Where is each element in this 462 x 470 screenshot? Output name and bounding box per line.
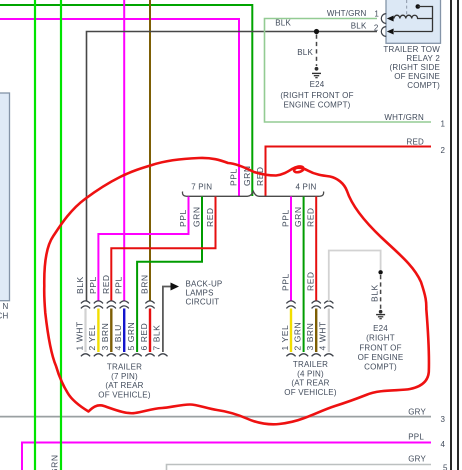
arrow back-up lamps [171,283,180,291]
svg-text:E24: E24 [310,80,325,89]
svg-text:CIRCUIT: CIRCUIT [186,298,220,307]
svg-text:(RIGHT: (RIGHT [366,334,395,343]
svg-text:7 PIN: 7 PIN [191,183,212,192]
svg-text:1: 1 [374,10,379,19]
svg-text:BRN: BRN [140,274,150,294]
wire GRN 7-pin branch from brace to pin5 column (continuous) [137,197,202,353]
wire BRN vertical from top to 7-pin pin6 [149,0,151,301]
svg-text:GRY: GRY [408,408,426,417]
wire GRN vertical pass-through left 2 [60,0,62,470]
svg-text:COMPT): COMPT) [407,81,440,90]
brace splitting feeds to 7-pin and 4-pin [182,191,323,196]
wire BLK stub pin7 to back-up lamps arrow [163,287,171,353]
svg-text:BACK-UP: BACK-UP [186,280,223,289]
svg-text:1 WHT: 1 WHT [74,321,84,350]
7-pin pin wires [84,309,86,353]
svg-text:COMPT): COMPT) [364,363,397,372]
wire BLK dashed drop to ground E24 right [380,275,382,309]
7-pin bottom terminal arcs [81,354,168,357]
relay internal top node dot and link [416,4,421,9]
svg-text:5 GRN: 5 GRN [126,322,136,351]
svg-text:6 RED: 6 RED [139,323,149,351]
wire GRN 4-pin branch from brace (continuous) [303,197,305,353]
wire GRY pin 3 horizontal [0,416,431,418]
4-pin pin wires [290,309,292,353]
svg-text:3 BRN: 3 BRN [100,323,110,351]
svg-text:3: 3 [441,415,446,424]
wire RED 4-pin branch from brace [315,197,317,302]
svg-text:BLK: BLK [275,19,291,28]
connector double vertical lines right edge [450,0,452,470]
wire BLK dashed drop to ground E24 left [316,35,318,67]
svg-text:RED: RED [255,166,265,186]
svg-text:(RIGHT FRONT OF: (RIGHT FRONT OF [280,91,353,100]
wire PPL 4-pin branch from brace [290,197,292,302]
wire GRY pin 5 with corner down at x=166 [167,465,432,470]
svg-text:GRN: GRN [192,206,202,227]
svg-text:2: 2 [374,23,379,32]
svg-text:OF ENGINE: OF ENGINE [394,72,440,81]
wire GRN vertical pass-through left 1 [34,0,36,470]
svg-text:PPL: PPL [88,276,98,294]
svg-text:2 GRN: 2 GRN [292,322,302,351]
wire PPL vertical from top to 7-pin pin4 [123,0,125,301]
wire WHT from 4-pin pin4 up and over to E24 right [329,251,381,302]
svg-text:FRONT OF: FRONT OF [359,343,401,352]
wire BLK from relay pin2 left then down to 7-pin pin1 [87,32,378,302]
wire WHT/GRN from relay pin1 around to right connector pin 1 [265,19,432,123]
svg-text:BLK: BLK [297,48,313,57]
svg-text:WHT/GRN: WHT/GRN [384,113,424,122]
relay pin2 row with left arrow [394,31,433,33]
svg-text:N: N [3,302,9,311]
svg-text:TRAILER: TRAILER [293,360,328,369]
component box (left edge, partially off-screen) [0,93,10,301]
svg-text:(AT REAR: (AT REAR [291,379,329,388]
svg-text:ENGINE COMPT): ENGINE COMPT) [283,101,350,110]
svg-text:RED: RED [407,138,425,147]
svg-text:3 BRN: 3 BRN [305,323,315,351]
svg-text:4 PIN: 4 PIN [295,183,316,192]
svg-text:7 BLK: 7 BLK [152,325,162,351]
svg-text:OF VEHICLE): OF VEHICLE) [98,391,151,400]
svg-text:TRAILER TOW: TRAILER TOW [383,45,440,54]
svg-text:PPL: PPL [408,433,424,442]
svg-text:GRN: GRN [293,206,303,227]
svg-text:2 YEL: 2 YEL [87,325,97,351]
svg-text:TRAILER: TRAILER [107,363,142,372]
svg-text:BLK: BLK [75,276,85,294]
wire PPL feed: horizontal y=19 then down at x=239 to brace [0,19,239,196]
hand-drawn red loop [44,158,429,424]
svg-text:1: 1 [441,120,446,129]
svg-text:PPL: PPL [114,276,124,294]
svg-text:PPL: PPL [281,209,291,227]
ground E24 right symbol [376,310,385,319]
svg-text:(4 PIN): (4 PIN) [297,369,324,378]
4-pin bottom terminal arcs [286,354,333,357]
relay pin 2 connector arc [381,27,386,37]
wire PPL 7-pin branch from brace to pin2 column [98,197,188,302]
svg-text:RED: RED [205,207,215,227]
svg-text:2: 2 [441,146,446,155]
svg-text:BLK: BLK [351,22,367,31]
svg-text:PPL: PPL [281,273,291,291]
relay pin 1 connector arc [381,14,386,24]
wire RED 7-pin branch from brace to pin3 column [111,197,215,302]
svg-text:WHT/GRN: WHT/GRN [327,9,367,18]
svg-text:RED: RED [306,207,316,227]
wire GRN feed: horizontal y=5 then down at x=252.3 to brace [0,5,252,196]
7-pin connector inline arcs [81,301,155,309]
svg-text:(AT REAR: (AT REAR [105,381,143,390]
svg-text:4 WHT: 4 WHT [318,321,328,350]
svg-text:E24: E24 [373,324,388,333]
svg-text:RED: RED [101,274,111,294]
svg-text:PPL: PPL [229,168,239,186]
ground E24 left symbol [312,67,321,78]
relay U trailer tow relay 2 box [386,0,441,43]
relay internal dashed actuator line [406,0,408,17]
node dot top of E24 right dashed drop [378,270,382,274]
svg-text:LAMPS: LAMPS [186,289,214,298]
wire RED from right connector pin 2 left then down to brace [266,147,432,197]
svg-text:RED: RED [306,271,316,291]
svg-text:4 BLU: 4 BLU [113,324,123,350]
wire PPL pin 4 with corner down at left [22,443,431,470]
svg-text:GRY: GRY [408,455,426,464]
svg-text:4: 4 [441,440,446,449]
svg-text:(7 PIN): (7 PIN) [111,372,138,381]
svg-text:BLK: BLK [370,284,380,302]
svg-text:1 YEL: 1 YEL [280,325,290,351]
svg-text:OF ENGINE: OF ENGINE [358,353,404,362]
svg-text:RELAY 2: RELAY 2 [406,54,440,63]
relay coil pin1 row with left arrow [394,15,433,18]
node junction dot on BLK wire [314,29,319,34]
svg-text:OF VEHICLE): OF VEHICLE) [284,388,337,397]
svg-text:CH: CH [0,312,9,321]
svg-text:5: 5 [443,464,448,470]
svg-text:(RIGHT SIDE: (RIGHT SIDE [389,63,440,72]
svg-text:GRN: GRN [50,454,60,470]
svg-text:PPL: PPL [178,209,188,227]
4-pin connector inline arcs [286,301,333,309]
